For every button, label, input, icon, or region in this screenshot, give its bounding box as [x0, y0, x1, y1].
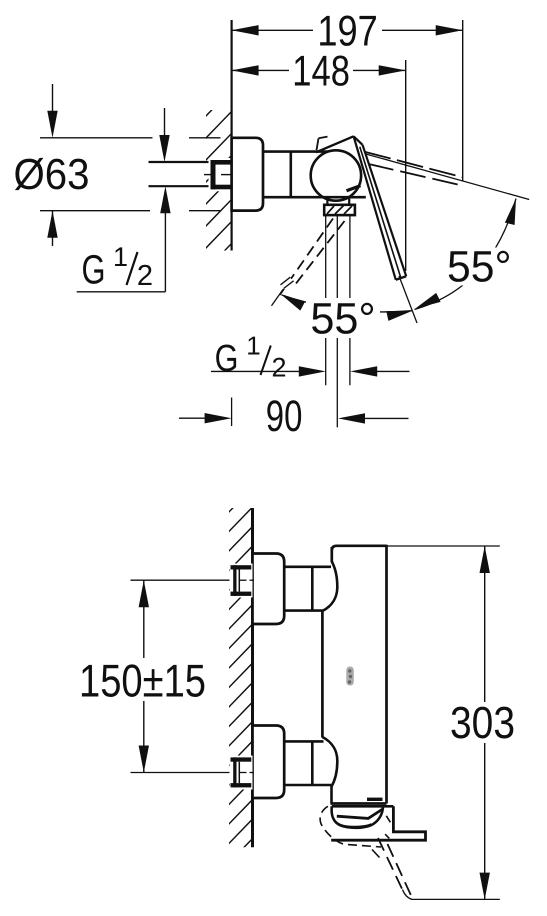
outlet mark (front view) [367, 798, 383, 801]
dimension 197 [232, 29, 313, 31]
svg-text:Ø63: Ø63 [14, 151, 90, 199]
label 55 deg (lower) [306, 298, 380, 338]
dashed open handle outline (corner marks) [317, 138, 319, 150]
svg-text:55°: 55° [310, 295, 375, 344]
svg-text:55°: 55° [447, 243, 512, 292]
handle axis extension line [399, 276, 417, 323]
body waist edge [321, 610, 324, 738]
wall section hatching (plan view) [204, 88, 233, 360]
bottom union bulge [322, 737, 337, 804]
svg-text:1: 1 [246, 331, 260, 361]
faucet body (front view) [332, 546, 387, 551]
top S-union adapter [284, 565, 331, 568]
shower outlet cup [332, 805, 394, 808]
svg-text:G: G [82, 247, 106, 293]
top union bulge [322, 562, 337, 612]
handle lever [354, 136, 407, 279]
union nut behind wall (plan view) [209, 158, 232, 191]
bottom union nut behind wall [230, 756, 253, 790]
dimension 303 [387, 545, 500, 547]
label 55 deg (right) [443, 248, 516, 286]
svg-text:2: 2 [271, 353, 286, 383]
angle arc lower 55 deg [282, 295, 413, 312]
hand shower holder bracket [331, 806, 425, 840]
dimension 90 [231, 398, 233, 427]
centerline bottom connection [131, 772, 231, 774]
ball housing [311, 150, 361, 200]
svg-text:150±15: 150±15 [79, 655, 206, 707]
centerline of supply pipe (plan view) [204, 174, 215, 176]
supply pipe (plan view) [149, 161, 213, 163]
outlet neck and threaded collar (plan view) [326, 197, 328, 205]
top escutcheon (front view) [253, 554, 285, 625]
thin open position line (55 deg reference) [364, 154, 529, 200]
dashed shower hose (front view) [378, 838, 404, 892]
centerline dashes through nuts [239, 579, 247, 581]
dimension 148 [232, 69, 289, 71]
svg-text:148: 148 [292, 47, 350, 95]
dimension 150+-15 [143, 580, 145, 772]
bottom S-union adapter [284, 740, 323, 743]
angle arc right 55 deg [415, 199, 517, 310]
break mark on hose line [280, 278, 294, 290]
centerline top connection [131, 579, 231, 581]
bottom escutcheon (front view) [253, 726, 285, 799]
dashed hand shower outline (right bits) [386, 816, 390, 823]
dimension G 1/2 (top) [164, 108, 166, 136]
svg-text:G: G [215, 338, 239, 380]
wall face line (plan view) / left extension line [231, 20, 233, 251]
svg-text:90: 90 [266, 392, 303, 441]
wall section hatching (front view) [227, 486, 254, 865]
extension lines below outlet [325, 215, 327, 385]
dashed hand shower outline [320, 806, 381, 847]
faucet body tube (plan view) [263, 150, 329, 153]
dashed shower hose direction (plan view) [280, 219, 333, 295]
svg-text:1: 1 [113, 242, 128, 272]
svg-text:2: 2 [137, 260, 153, 292]
svg-text:303: 303 [450, 697, 515, 748]
top union nut behind wall [230, 564, 253, 598]
wall face line (front view) [251, 508, 254, 847]
GROHE logo mark [346, 667, 354, 686]
outlet mark inside ball [347, 186, 361, 191]
handle cap [316, 136, 354, 152]
dimension G 1/2 (outlet) [211, 370, 300, 372]
escutcheon (plan view) [232, 138, 263, 211]
dimension lines for diameter 63 [40, 137, 153, 139]
dashed raised handle lines [365, 152, 463, 178]
